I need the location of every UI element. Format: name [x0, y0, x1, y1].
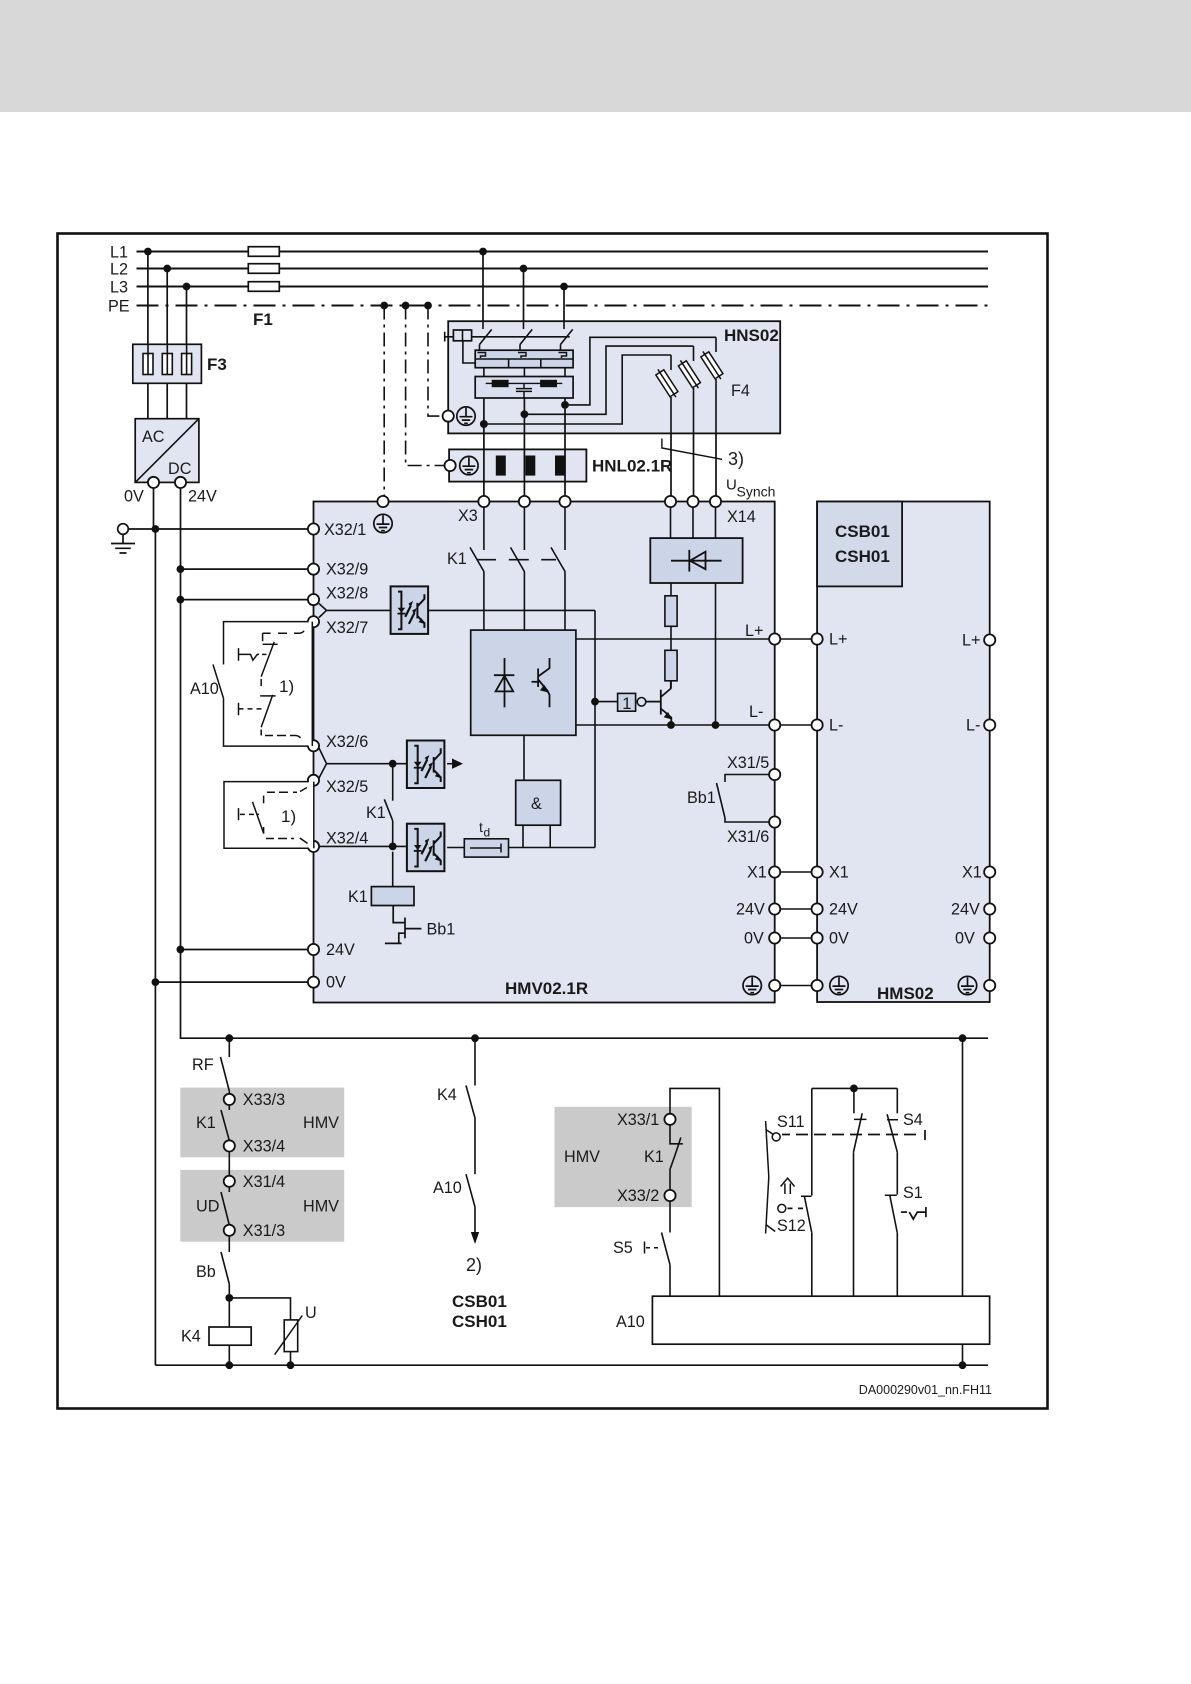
svg-text:L3: L3	[110, 279, 128, 297]
svg-text:CSH01: CSH01	[835, 547, 890, 566]
svg-text:0V: 0V	[955, 930, 975, 948]
svg-text:24V: 24V	[188, 488, 217, 506]
svg-text:L+: L+	[829, 631, 847, 649]
svg-text:X32/7: X32/7	[326, 619, 368, 637]
svg-text:S1: S1	[903, 1184, 923, 1202]
svg-text:Synch: Synch	[737, 484, 776, 500]
svg-text:X33/1: X33/1	[617, 1111, 659, 1129]
svg-text:A10: A10	[190, 680, 219, 698]
svg-text:2): 2)	[466, 1255, 482, 1275]
svg-text:HMV: HMV	[303, 1198, 339, 1216]
svg-text:K4: K4	[437, 1086, 457, 1104]
svg-text:K1: K1	[644, 1148, 664, 1166]
svg-text:L-: L-	[966, 717, 980, 735]
svg-text:HMV02.1R: HMV02.1R	[505, 979, 588, 998]
svg-text:HNS02: HNS02	[724, 326, 779, 345]
svg-text:&: &	[531, 795, 542, 813]
svg-text:Bb1: Bb1	[687, 789, 716, 807]
svg-text:1: 1	[622, 695, 631, 713]
svg-text:L+: L+	[745, 622, 763, 640]
svg-text:RF: RF	[192, 1056, 214, 1074]
svg-text:AC: AC	[142, 428, 165, 446]
svg-text:24V: 24V	[829, 901, 858, 919]
svg-text:S11: S11	[777, 1113, 805, 1131]
svg-text:L-: L-	[749, 703, 763, 721]
svg-text:K4: K4	[181, 1328, 201, 1346]
svg-text:S12: S12	[777, 1217, 806, 1235]
svg-text:F1: F1	[253, 310, 273, 329]
svg-text:X31/5: X31/5	[727, 754, 769, 772]
svg-text:L-: L-	[829, 717, 843, 735]
svg-text:U: U	[305, 1304, 317, 1322]
svg-text:S5: S5	[613, 1239, 633, 1257]
svg-text:DC: DC	[168, 460, 192, 478]
svg-text:X14: X14	[727, 508, 756, 526]
svg-text:X31/6: X31/6	[727, 828, 769, 846]
svg-text:d: d	[484, 826, 491, 840]
svg-text:X32/4: X32/4	[326, 830, 368, 848]
svg-text:HMV: HMV	[564, 1148, 600, 1166]
svg-text:0V: 0V	[829, 930, 849, 948]
svg-text:t: t	[479, 819, 483, 835]
svg-text:K1: K1	[366, 804, 386, 822]
svg-text:X1: X1	[747, 864, 767, 882]
svg-text:K1: K1	[447, 550, 467, 568]
svg-text:X32/6: X32/6	[326, 733, 368, 751]
svg-text:F4: F4	[731, 382, 750, 400]
svg-text:X1: X1	[829, 864, 849, 882]
svg-text:DA000290v01_nn.FH11: DA000290v01_nn.FH11	[859, 1383, 992, 1397]
svg-text:CSB01: CSB01	[452, 1292, 507, 1311]
svg-text:X31/4: X31/4	[243, 1173, 285, 1191]
svg-text:S4: S4	[903, 1111, 923, 1129]
svg-text:0V: 0V	[326, 974, 346, 992]
svg-text:HMV: HMV	[303, 1114, 339, 1132]
svg-text:X31/3: X31/3	[243, 1222, 285, 1240]
svg-text:L1: L1	[110, 244, 128, 262]
svg-text:X33/3: X33/3	[243, 1091, 285, 1109]
svg-text:3): 3)	[728, 449, 744, 469]
svg-text:A10: A10	[616, 1313, 645, 1331]
svg-text:X3: X3	[458, 507, 478, 525]
svg-text:X33/4: X33/4	[243, 1137, 285, 1155]
svg-text:PE: PE	[108, 298, 130, 316]
svg-text:X32/5: X32/5	[326, 778, 368, 796]
svg-text:X32/9: X32/9	[326, 561, 368, 579]
svg-text:HNL02.1R: HNL02.1R	[592, 457, 672, 476]
svg-text:CSH01: CSH01	[452, 1312, 507, 1331]
svg-text:CSB01: CSB01	[835, 522, 890, 541]
svg-text:HMS02: HMS02	[877, 984, 934, 1003]
svg-text:X33/2: X33/2	[617, 1187, 659, 1205]
svg-text:Bb: Bb	[196, 1263, 216, 1281]
svg-text:1): 1)	[279, 677, 294, 696]
svg-text:F3: F3	[207, 355, 227, 374]
svg-text:K1: K1	[196, 1114, 216, 1132]
svg-text:1): 1)	[281, 807, 296, 826]
svg-text:U: U	[726, 477, 737, 494]
svg-text:0V: 0V	[124, 488, 144, 506]
svg-text:L+: L+	[962, 632, 980, 650]
svg-text:UD: UD	[196, 1198, 219, 1216]
svg-text:24V: 24V	[951, 901, 980, 919]
svg-text:24V: 24V	[736, 901, 765, 919]
svg-text:X1: X1	[962, 864, 982, 882]
svg-text:24V: 24V	[326, 941, 355, 959]
svg-text:K1: K1	[348, 888, 368, 906]
svg-text:L2: L2	[110, 261, 128, 279]
svg-text:X32/1: X32/1	[324, 521, 366, 539]
svg-text:Bb1: Bb1	[427, 921, 456, 939]
svg-text:X32/8: X32/8	[326, 585, 368, 603]
svg-text:0V: 0V	[744, 930, 764, 948]
svg-text:A10: A10	[433, 1179, 462, 1197]
